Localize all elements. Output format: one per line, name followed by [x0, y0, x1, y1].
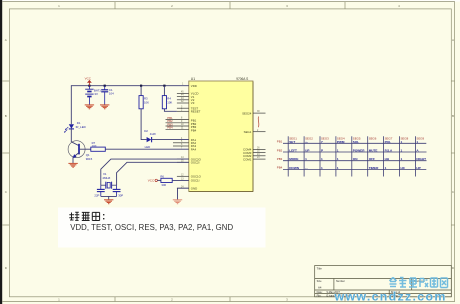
svg-text:300: 300 [161, 183, 166, 187]
svg-text:9015: 9015 [86, 157, 93, 161]
svg-text:-..: -.. [305, 166, 308, 170]
net labels SEG1-SEG9 column headers [289, 137, 424, 141]
svg-text:SEG24: SEG24 [242, 111, 252, 115]
svg-text:1: 1 [401, 149, 403, 153]
svg-text:LED: LED [145, 145, 151, 149]
svg-text:www.cndzz.com: www.cndzz.com [334, 290, 447, 304]
svg-text:NIGHT: NIGHT [416, 157, 426, 161]
resistor R6 [161, 178, 172, 182]
ground Q1 emitter [68, 163, 77, 167]
svg-text:MUTE: MUTE [369, 149, 378, 153]
IC right pin names [242, 111, 252, 161]
key matrix row wires PB1-PB4 [283, 143, 427, 169]
svg-text:1: 1 [401, 157, 403, 161]
svg-text:RESET: RESET [191, 110, 201, 114]
svg-text:R6: R6 [160, 174, 164, 178]
wire R6 to OSC1I [172, 179, 189, 181]
svg-text:VCC: VCC [148, 179, 155, 183]
LED D1 [64, 124, 74, 132]
svg-text:U1: U1 [191, 77, 195, 81]
wire rail to R3 [140, 86, 142, 96]
svg-text:1: 1 [321, 166, 323, 170]
key name labels row 2 [289, 149, 419, 153]
transistor Q1 [68, 141, 85, 163]
wire crystal common ground [101, 196, 117, 199]
ground IC GND [173, 200, 182, 204]
svg-text:HC: HC [401, 166, 406, 170]
ground crystal [104, 200, 113, 204]
svg-text:VDD: VDD [191, 84, 197, 88]
wire OSC2I to crystal right [117, 162, 189, 185]
svg-text:1: 1 [337, 166, 339, 170]
svg-text:V3: V3 [191, 101, 195, 105]
svg-text:100: 100 [92, 144, 97, 148]
svg-text:B: B [452, 114, 454, 118]
svg-text:DOWN: DOWN [289, 166, 300, 170]
svg-text:10K: 10K [167, 100, 172, 104]
net labels PB1-PB4 row headers [277, 140, 283, 170]
power port VCC main [85, 76, 92, 85]
key name labels row 3 [289, 157, 426, 161]
wire base to R7 [80, 148, 91, 150]
svg-text:OFF: OFF [369, 157, 375, 161]
pin numbers [181, 84, 260, 189]
svg-text:HH: HH [385, 157, 390, 161]
svg-text:ON: ON [353, 157, 358, 161]
svg-text:PB1: PB1 [277, 140, 283, 144]
svg-text:+-: +- [305, 140, 308, 144]
svg-text:TIMER: TIMER [369, 166, 379, 170]
svg-text:P.S.A: P.S.A [385, 149, 393, 153]
svg-text:B: B [5, 114, 7, 118]
svg-text:7: 7 [321, 140, 323, 144]
ground battery [85, 105, 94, 109]
svg-text:4MHZ: 4MHZ [102, 176, 110, 180]
svg-text:1: 1 [401, 140, 403, 144]
node junction R3 [140, 85, 142, 87]
key name labels row 4 [289, 166, 421, 170]
svg-text:D2: D2 [144, 129, 148, 133]
watermark Chinese characters [390, 278, 448, 288]
node junction battery [88, 85, 90, 87]
svg-text:A4: A4 [318, 285, 322, 289]
svg-text:1: 1 [305, 157, 307, 161]
svg-text:POWER: POWER [353, 149, 365, 153]
red bus squiggle between SEG24 and SEG1 [257, 117, 260, 128]
wire OSC2O to crystal left [101, 159, 189, 185]
svg-text:1: 1 [337, 157, 339, 161]
svg-text:30P: 30P [118, 194, 123, 198]
wire VCC rail [71, 85, 189, 87]
svg-text:Title: Title [317, 266, 323, 270]
IC right pin stubs [253, 113, 266, 159]
svg-text:MODE: MODE [289, 157, 298, 161]
svg-text:104: 104 [109, 92, 114, 96]
capacitor C2 [97, 185, 105, 196]
svg-text:Number: Number [336, 280, 345, 283]
border zone letters [5, 38, 455, 270]
wire R7 to PA4 [105, 148, 189, 150]
svg-text:SEG1: SEG1 [244, 130, 252, 134]
wire LED to Q1 collector [71, 129, 79, 146]
svg-text:A: A [5, 38, 7, 42]
title block texts [317, 266, 424, 297]
svg-text:OSC1I: OSC1I [191, 179, 200, 183]
wire GND pin down [178, 188, 189, 199]
svg-text:IR_LED: IR_LED [76, 125, 86, 129]
note background plate [58, 208, 266, 248]
IC left pin names [191, 84, 202, 190]
svg-text:LEFT: LEFT [289, 149, 297, 153]
svg-text:Size: Size [317, 280, 322, 283]
svg-text:9706A S: 9706A S [236, 77, 248, 81]
power port VCC reset [148, 179, 161, 183]
svg-text:22P: 22P [94, 194, 99, 198]
svg-text:SET: SET [289, 140, 295, 144]
svg-text:VCC: VCC [85, 76, 92, 80]
svg-text:PB2: PB2 [277, 148, 283, 152]
svg-text:SOL: SOL [353, 140, 359, 144]
svg-text:File:: File: [317, 294, 322, 297]
svg-text:1: 1 [416, 140, 418, 144]
title block frame [315, 266, 452, 297]
svg-text:P: P [321, 149, 323, 153]
wire R4 to RESET [164, 109, 177, 112]
node junction C1 [104, 85, 106, 87]
svg-text:A: A [452, 38, 454, 42]
svg-text:PB4: PB4 [277, 166, 283, 170]
svg-text:1: 1 [337, 149, 339, 153]
svg-text:PB3: PB3 [277, 157, 283, 161]
svg-text:OSC2I: OSC2I [191, 161, 200, 165]
node junction R4 [163, 85, 165, 87]
crystal X1 [101, 182, 117, 189]
capacitor C1 [101, 86, 108, 105]
svg-text:PB4: PB4 [191, 128, 197, 132]
svg-text:COM1: COM1 [243, 157, 252, 161]
svg-text:GND: GND [191, 186, 197, 190]
resistor R3 [139, 96, 143, 109]
svg-text:1: 1 [385, 166, 387, 170]
IC left pin stubs [166, 93, 189, 188]
svg-text:10K: 10K [144, 100, 149, 104]
wire R3 to D2 [141, 109, 147, 140]
black scan edge strip [0, 0, 2, 304]
svg-text:4148: 4148 [150, 132, 156, 136]
key matrix column wires SEG1-SEG9 [288, 136, 415, 176]
svg-text:HP: HP [416, 166, 420, 170]
svg-text:UP: UP [305, 149, 309, 153]
wire D2 to PA1 [152, 139, 189, 141]
svg-text:PB4: PB4 [167, 126, 173, 130]
resistor R7 [91, 147, 106, 151]
svg-text:PA4: PA4 [191, 147, 197, 151]
key name labels row 1 [289, 140, 418, 144]
svg-text:1: 1 [321, 157, 323, 161]
svg-text:POL: POL [385, 140, 391, 144]
svg-text:PWM: PWM [337, 140, 345, 144]
diode D2 [147, 137, 152, 142]
IC U1 body [189, 81, 253, 192]
wire rail corner to LED [70, 85, 72, 124]
border zone numbers [58, 4, 400, 302]
programming note heading (Chinese glyphs drawn) [69, 212, 99, 220]
svg-text:VDD, TEST, OSCI, RES, PA3, PA2: VDD, TEST, OSCI, RES, PA3, PA2, PA1, GND [70, 223, 233, 232]
ground C1 [100, 105, 109, 109]
wire rail to R4 [163, 86, 165, 96]
svg-text:SEG6: SEG6 [369, 137, 377, 141]
battery BAT1 [85, 86, 93, 105]
note colon [103, 214, 104, 219]
svg-text:3V: 3V [94, 92, 98, 96]
resistor R4 [162, 96, 166, 109]
capacitor C3 [113, 185, 121, 196]
